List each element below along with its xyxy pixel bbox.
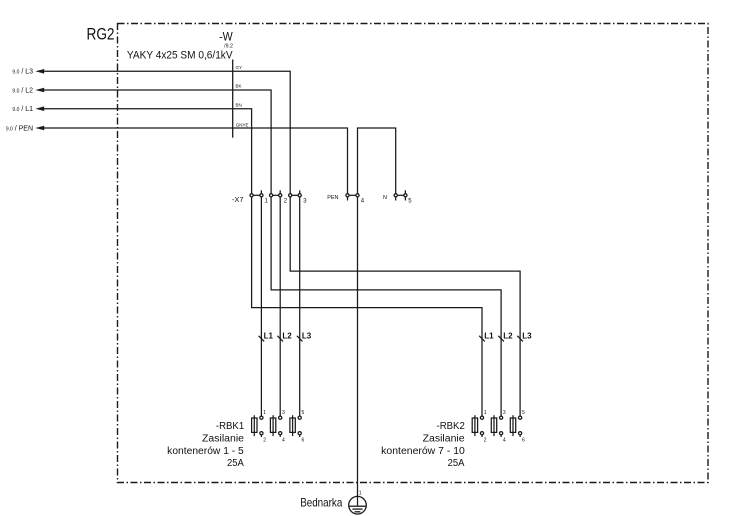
wire L1 (core BN) with arrow to 9.0/L1 bbox=[12, 102, 251, 193]
svg-text:BK: BK bbox=[236, 84, 242, 89]
svg-text:6: 6 bbox=[522, 437, 525, 443]
svg-text:1: 1 bbox=[263, 410, 266, 416]
svg-text:-W: -W bbox=[219, 29, 233, 43]
wire X7:2 left pin to RBK2 pole 2 bbox=[271, 197, 501, 416]
svg-text:YAKY 4x25 SM 0,6/1kV: YAKY 4x25 SM 0,6/1kV bbox=[127, 50, 233, 62]
svg-text:Bednarka: Bednarka bbox=[300, 496, 342, 510]
svg-text:BN: BN bbox=[236, 102, 242, 107]
svg-text:-X7: -X7 bbox=[232, 195, 244, 204]
wire X7:4 right pin down to earth electrode bbox=[357, 197, 359, 506]
node L3 marker on RBK2 pole 3 wire bbox=[517, 331, 532, 341]
label block RBK2 bbox=[381, 421, 465, 469]
wire X7:4 right pin jumper to X7:5 left pin bbox=[358, 128, 396, 194]
terminal X7:2 bbox=[270, 190, 288, 204]
enclosure RG2 dashed boundary bbox=[118, 24, 709, 483]
svg-text:-RBK1: -RBK1 bbox=[216, 421, 244, 432]
svg-text:Zasilanie: Zasilanie bbox=[202, 434, 245, 445]
terminal X7:4 (PEN) bbox=[327, 194, 365, 205]
earth electrode (Bednarka) pin 1 bbox=[349, 490, 367, 514]
svg-text:25A: 25A bbox=[448, 458, 465, 469]
svg-text:6: 6 bbox=[302, 437, 305, 443]
svg-text:3: 3 bbox=[503, 410, 506, 416]
svg-text:5: 5 bbox=[302, 410, 305, 416]
svg-text:kontenerów 1 - 5: kontenerów 1 - 5 bbox=[167, 446, 244, 457]
svg-text:1: 1 bbox=[359, 490, 362, 496]
svg-text:PEN: PEN bbox=[327, 195, 338, 201]
svg-text:L2: L2 bbox=[503, 331, 513, 340]
svg-text:1: 1 bbox=[484, 410, 487, 416]
wire L2 (core BK) with arrow to 9.0/L2 bbox=[12, 84, 271, 194]
svg-text:/9.2: /9.2 bbox=[224, 43, 233, 49]
wire PEN (core GNYE) with arrow to 9.0/PEN bbox=[6, 123, 348, 194]
svg-text:4: 4 bbox=[282, 437, 285, 443]
svg-text:kontenerów 7 - 10: kontenerów 7 - 10 bbox=[381, 446, 465, 457]
wire X7:2 right pin down to RBK1 pole 2 bbox=[279, 197, 281, 416]
node L2 marker on RBK2 pole 2 wire bbox=[498, 331, 513, 341]
fuse-switch RBK2 pole 1 (pins 1,2) bbox=[472, 410, 487, 443]
cable W bbox=[127, 29, 233, 137]
node L1 marker on RBK2 pole 1 wire bbox=[479, 331, 494, 341]
svg-text:9.0 / L3: 9.0 / L3 bbox=[12, 69, 33, 76]
svg-text:9.0 / L1: 9.0 / L1 bbox=[12, 106, 33, 113]
svg-text:L1: L1 bbox=[264, 331, 274, 340]
svg-text:N: N bbox=[383, 195, 387, 201]
wire X7:3 right pin down to RBK1 pole 3 bbox=[299, 197, 301, 416]
terminal X7:1 bbox=[250, 190, 269, 204]
wire X7:1 right pin down to RBK1 pole 1 bbox=[260, 197, 262, 416]
svg-text:GNYE: GNYE bbox=[236, 123, 249, 128]
fuse-switch RBK2 pole 2 (pins 3,4) bbox=[491, 410, 506, 443]
svg-text:2: 2 bbox=[484, 437, 487, 443]
fuse-switch RBK1 pole 3 (pins 5,6) bbox=[290, 410, 305, 443]
svg-text:L2: L2 bbox=[282, 331, 292, 340]
wire X7:1 left pin to RBK2 pole 1 bbox=[252, 197, 482, 416]
svg-text:25A: 25A bbox=[227, 458, 244, 469]
fuse-switch RBK2 pole 3 (pins 5,6) bbox=[510, 410, 525, 443]
svg-text:3: 3 bbox=[282, 410, 285, 416]
svg-text:4: 4 bbox=[503, 437, 506, 443]
svg-text:Zasilanie: Zasilanie bbox=[423, 434, 466, 445]
svg-text:-RBK2: -RBK2 bbox=[437, 421, 465, 432]
svg-text:9.0 / L2: 9.0 / L2 bbox=[12, 87, 33, 94]
node L2 marker on RBK1 pole 2 wire bbox=[277, 331, 292, 341]
svg-text:RG2: RG2 bbox=[87, 26, 115, 44]
label block RBK1 bbox=[167, 421, 244, 469]
svg-text:5: 5 bbox=[522, 410, 525, 416]
wire L3 (core GY) with arrow to 9.0/L3 bbox=[12, 65, 290, 194]
fuse-switch RBK1 pole 2 (pins 3,4) bbox=[270, 410, 285, 443]
fuse-switch RBK1 pole 1 (pins 1,2) bbox=[252, 410, 267, 443]
svg-text:L3: L3 bbox=[302, 331, 312, 340]
svg-text:GY: GY bbox=[236, 65, 243, 70]
terminal X7:3 bbox=[289, 190, 308, 204]
node L3 marker on RBK1 pole 3 wire bbox=[297, 331, 312, 341]
svg-text:9.0 / PEN: 9.0 / PEN bbox=[6, 125, 33, 132]
wire X7:3 left pin to RBK2 pole 3 bbox=[290, 197, 520, 416]
node L1 marker on RBK1 pole 1 wire bbox=[259, 331, 274, 341]
terminal X7:5 (N) bbox=[383, 190, 412, 204]
svg-text:L3: L3 bbox=[522, 331, 532, 340]
svg-text:2: 2 bbox=[263, 437, 266, 443]
svg-text:L1: L1 bbox=[484, 331, 494, 340]
